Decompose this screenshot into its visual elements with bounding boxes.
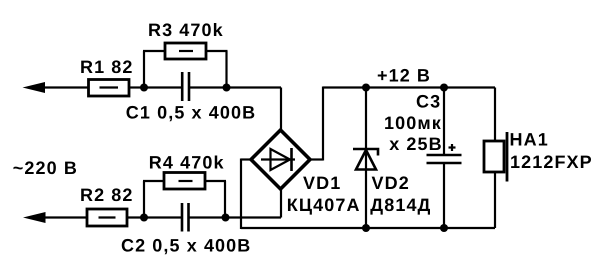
svg-text:R4 470k: R4 470k: [149, 153, 225, 173]
junction: VD2 bottom node: [362, 224, 370, 232]
svg-text:х 25В: х 25В: [389, 134, 443, 154]
junction C (R2/R4/C2): [140, 214, 148, 222]
resistor R3: [143, 43, 228, 88]
junction D (C2/R4/bridge input): [222, 214, 230, 222]
junction A (R1/R3/C1): [140, 84, 148, 92]
resistor R4: [143, 173, 226, 218]
svg-text:R3 470k: R3 470k: [148, 20, 224, 40]
bridge inner diode symbol: [261, 148, 295, 171]
svg-text:1212FXP: 1212FXP: [510, 152, 593, 172]
resistor R1: [89, 80, 130, 97]
svg-text:HA1: HA1: [510, 129, 549, 149]
junction: VD2 top node: [362, 84, 370, 92]
junction: C3 top node: [440, 84, 448, 92]
junction: C3 bottom node: [440, 224, 448, 232]
svg-text:R1 82: R1 82: [80, 57, 134, 77]
svg-text:100мк: 100мк: [384, 113, 442, 133]
resistor R2: [87, 209, 127, 226]
capacitor C2: [144, 203, 226, 232]
wire junction D to bridge bottom vertex: [226, 188, 282, 218]
capacitor C1: [144, 72, 227, 101]
wire junction B to bridge top vertex: [227, 88, 282, 133]
node: bottom AC input arrow: [23, 212, 87, 223]
svg-text:VD1: VD1: [303, 173, 341, 193]
svg-text:R2 82: R2 82: [80, 185, 134, 205]
bridge rectifier VD1 (diamond): [251, 130, 310, 189]
capacitor C3 (electrolytic): [427, 88, 462, 229]
svg-text:C3: C3: [416, 91, 441, 111]
wire R2 to junction C: [127, 216, 144, 218]
svg-text:КЦ407А: КЦ407А: [287, 195, 361, 215]
svg-text:+12 В: +12 В: [377, 65, 431, 85]
svg-text:Д814Д: Д814Д: [370, 195, 431, 215]
svg-text:C2 0,5 x 400В: C2 0,5 x 400В: [121, 235, 251, 255]
zener diode VD2: [353, 88, 378, 229]
junction B (C1/R3/bridge input): [223, 84, 231, 92]
wire bridge - output to bottom rail: [241, 159, 495, 230]
wire R1 to junction A: [129, 86, 144, 88]
svg-text:C1 0,5 x 400В: C1 0,5 x 400В: [126, 103, 256, 123]
buzzer HA1: [484, 88, 507, 229]
svg-text:VD2: VD2: [372, 173, 410, 193]
svg-text:~220 В: ~220 В: [13, 158, 78, 178]
node: top AC input arrow: [23, 82, 89, 93]
wire bridge + output to +12V rail: [310, 87, 495, 161]
